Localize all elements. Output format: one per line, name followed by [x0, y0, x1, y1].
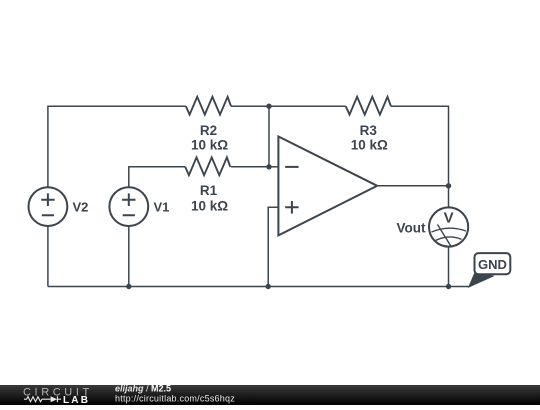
wire R2 right to node A — [231, 105, 269, 107]
svg-text:LAB: LAB — [63, 395, 90, 405]
svg-text:10 kΩ: 10 kΩ — [191, 198, 228, 213]
wire R3 to right rail down to output node — [391, 106, 449, 186]
voltage source V2 — [29, 187, 68, 226]
wire V1 top lead to R1 — [129, 167, 185, 188]
footer bar — [0, 385, 540, 405]
svg-text:R1: R1 — [200, 183, 218, 198]
wire bottom ground rail — [48, 286, 469, 288]
ground net flag GND — [468, 253, 511, 288]
svg-text:10 kΩ: 10 kΩ — [191, 138, 228, 153]
resistor R1 — [185, 157, 230, 175]
node B junction dot — [266, 164, 271, 169]
op-amp U1 — [278, 137, 377, 236]
wire voltmeter bottom lead — [448, 247, 450, 286]
node output junction dot — [446, 183, 451, 188]
wire node A to node B vertical — [268, 106, 270, 167]
node voltmeter ground junction dot — [446, 284, 451, 289]
voltmeter Vout — [429, 207, 468, 246]
wire V2 bottom lead — [47, 225, 49, 286]
wire node A to R3 — [269, 105, 346, 107]
wire R1 right to node B — [231, 166, 269, 168]
svg-text:V: V — [444, 210, 454, 227]
svg-text:10 kΩ: 10 kΩ — [351, 138, 388, 153]
node A junction dot — [266, 104, 271, 109]
node op-amp plus ground junction dot — [266, 284, 271, 289]
node V1 ground junction dot — [126, 284, 131, 289]
svg-text:R2: R2 — [200, 123, 217, 138]
svg-text:R3: R3 — [360, 123, 378, 138]
svg-text:Vout: Vout — [397, 221, 426, 236]
svg-text:V1: V1 — [154, 200, 170, 215]
wire node B to op-amp inverting input — [269, 166, 278, 168]
wire V2 top lead to R2 — [48, 106, 186, 187]
svg-text:elijahg / M2.5: elijahg / M2.5 — [115, 385, 171, 394]
wire V1 bottom lead — [128, 225, 130, 286]
wire output node down to voltmeter — [448, 186, 450, 207]
svg-text:GND: GND — [478, 257, 507, 272]
resistor R2 — [186, 97, 231, 115]
logo resistor zigzag and diode — [24, 396, 61, 402]
wire op-amp output to output node — [377, 185, 448, 187]
voltage source V1 — [109, 187, 148, 226]
resistor R3 — [346, 97, 391, 115]
svg-text:http://circuitlab.com/c5s6hqz: http://circuitlab.com/c5s6hqz — [115, 394, 235, 404]
svg-text:V2: V2 — [73, 200, 89, 215]
wire op-amp non-inverting input down to ground rail — [268, 207, 278, 286]
